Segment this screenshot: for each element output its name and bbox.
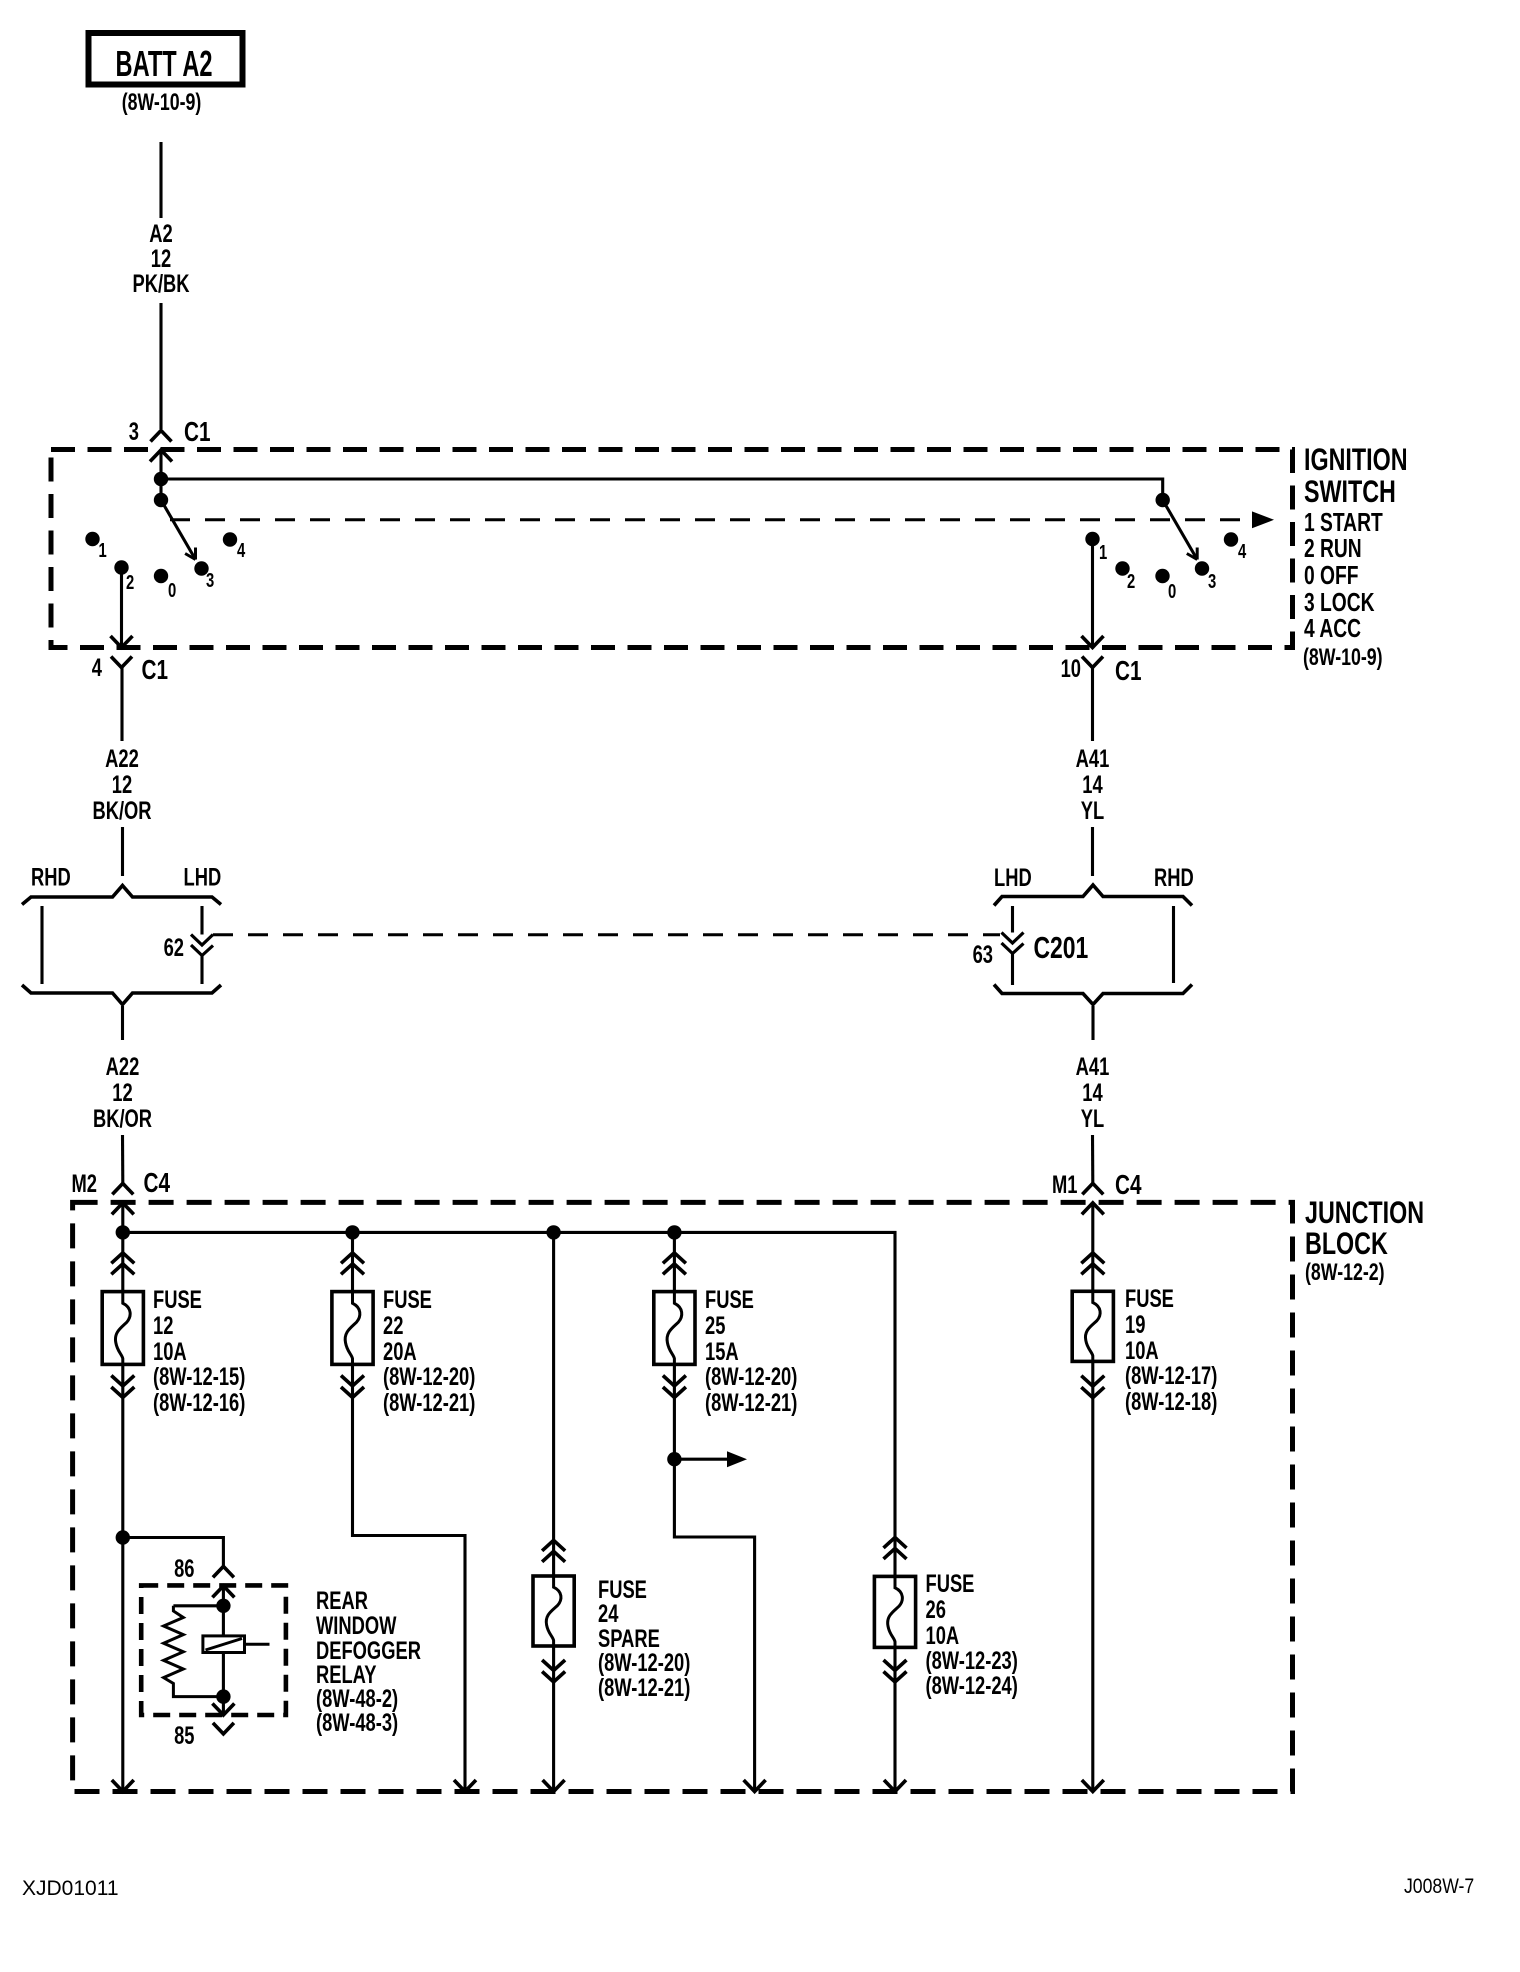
left switch contact 0 (154, 569, 168, 583)
fuse 19 upper chevrons (1081, 1253, 1104, 1264)
svg-text:86: 86 (174, 1554, 194, 1582)
fuse 24 upper chevrons (542, 1540, 565, 1551)
LHD branch wire upper (200, 906, 203, 935)
connector 62 chevrons (191, 935, 213, 946)
relay resistor link top (173, 1604, 223, 1607)
wire below left option split (121, 1006, 124, 1040)
connector C1 pin 10 fork below box (1082, 657, 1103, 668)
svg-text:3: 3 (206, 569, 214, 592)
fuse 12 upper chevrons (111, 1253, 134, 1264)
wire A41 from C1 pin10 (1091, 668, 1094, 742)
arrow fuse25 wire at block bottom (744, 1780, 766, 1792)
left switch contact 2 (114, 560, 128, 574)
bus node fuse 22 (345, 1225, 359, 1239)
arrow fuse22 wire at block bottom (454, 1780, 476, 1792)
relay internal node bottom (216, 1689, 230, 1703)
svg-text:C4: C4 (1115, 1170, 1142, 1201)
bus wire across junction block (123, 1232, 895, 1537)
bus node fuse 25 (667, 1225, 681, 1239)
svg-text:4: 4 (92, 653, 102, 681)
relay resistor (164, 1606, 224, 1697)
svg-text:(8W-12-24): (8W-12-24) (926, 1671, 1018, 1699)
svg-text:A41: A41 (1076, 744, 1110, 772)
bus node fuse 12 (116, 1225, 130, 1239)
fuse F12 (102, 1292, 143, 1365)
wire across ignition switch to right side (161, 479, 1163, 493)
wire below fuse 25 (674, 1364, 754, 1791)
svg-text:A41: A41 (1076, 1052, 1110, 1080)
left switch arm wiper (161, 500, 196, 560)
wire relay internal bottom (222, 1653, 225, 1715)
wire bus to fuse 24 (552, 1232, 555, 1576)
svg-text:14: 14 (1082, 1078, 1102, 1106)
wire below fuse 24 (552, 1646, 555, 1791)
wire bus to fuse 22 (351, 1232, 354, 1291)
svg-text:85: 85 (174, 1721, 194, 1749)
wire bus corner to fuse 26 (893, 1537, 896, 1576)
wire into left option split (121, 827, 124, 876)
svg-text:BK/OR: BK/OR (93, 1104, 152, 1132)
connector C1 pin 4 exit arrow (111, 636, 133, 648)
svg-text:PK/BK: PK/BK (132, 269, 189, 297)
svg-text:BK/OR: BK/OR (92, 796, 151, 824)
svg-text:2 RUN: 2 RUN (1304, 533, 1362, 563)
wire battery feed A2 (159, 142, 162, 218)
fuse 25 lower chevrons (663, 1376, 686, 1387)
svg-text:12: 12 (153, 1311, 173, 1339)
svg-text:FUSE: FUSE (705, 1285, 754, 1313)
svg-text:0 OFF: 0 OFF (1304, 560, 1359, 590)
svg-text:12: 12 (112, 770, 132, 798)
rear window defogger relay dashed box (141, 1585, 286, 1715)
svg-text:(8W-12-16): (8W-12-16) (153, 1388, 245, 1416)
arrow fuse12 wire at block bottom (112, 1780, 134, 1792)
connector C1 pin 10 exit arrow (1082, 636, 1104, 648)
svg-text:JUNCTION: JUNCTION (1305, 1195, 1424, 1230)
svg-text:63: 63 (973, 940, 993, 968)
fuse 12 lower chevrons (111, 1376, 134, 1387)
wire bus to fuse 25 (673, 1232, 676, 1291)
svg-text:C1: C1 (142, 655, 169, 686)
relay coil stub (245, 1643, 270, 1646)
wire relay internal top (222, 1586, 225, 1636)
relay terminal 85 arrow (212, 1704, 234, 1716)
wire C4 M2 to bus (121, 1203, 124, 1232)
connector C4 M2 fork (112, 1183, 133, 1194)
wire to relay terminal 86 (123, 1538, 224, 1567)
right switch arm wiper (1163, 500, 1198, 560)
right option split top brace (994, 885, 1192, 906)
svg-text:22: 22 (383, 1311, 403, 1339)
switch travel arrowhead (1252, 511, 1274, 528)
relay terminal 86 fork (213, 1566, 234, 1577)
svg-text:25: 25 (705, 1311, 725, 1339)
svg-text:1: 1 (1099, 541, 1107, 564)
svg-text:(8W-12-15): (8W-12-15) (153, 1362, 245, 1390)
svg-text:BATT A2: BATT A2 (116, 44, 213, 84)
relay terminal 86 arrow (212, 1586, 234, 1598)
left option split bottom brace (22, 985, 221, 1005)
svg-text:FUSE: FUSE (1125, 1284, 1174, 1312)
svg-text:62: 62 (164, 933, 184, 961)
wire to junction block C4 M1 (1091, 1135, 1094, 1183)
svg-text:19: 19 (1125, 1310, 1145, 1338)
svg-text:3: 3 (129, 417, 139, 445)
connector C1 pin 4 fork below box (111, 657, 132, 668)
svg-text:0: 0 (168, 579, 176, 602)
svg-text:4 ACC: 4 ACC (1304, 613, 1361, 643)
connector C4 M1 fork (1082, 1183, 1103, 1194)
svg-text:(8W-48-3): (8W-48-3) (316, 1708, 398, 1736)
wire to ignition switch C1 pin 3 (159, 303, 162, 429)
svg-text:LHD: LHD (994, 863, 1032, 891)
svg-text:C201: C201 (1034, 930, 1089, 965)
right switch contact 3 (1195, 561, 1209, 575)
svg-text:1: 1 (99, 539, 107, 562)
fuse F25 (654, 1292, 695, 1365)
svg-text:LHD: LHD (184, 863, 222, 891)
fuse F24 (533, 1576, 574, 1646)
arrow fuse24 wire at block bottom (543, 1780, 565, 1792)
wire below fuse 19 (1091, 1361, 1094, 1791)
connector 63 chevrons (1002, 933, 1024, 944)
bus node fuse 24 (546, 1225, 560, 1239)
arrow fuse26 wire at block bottom (884, 1780, 906, 1792)
left option split top brace (22, 886, 221, 905)
wire bus to fuse 12 (121, 1232, 124, 1291)
ignition switch dashed box (51, 450, 1293, 648)
fuse 26 lower chevrons (884, 1660, 907, 1671)
svg-text:FUSE: FUSE (153, 1285, 202, 1313)
connector C1 pin 3 fork (151, 431, 172, 442)
svg-text:C4: C4 (144, 1168, 171, 1199)
svg-text:4: 4 (1238, 540, 1246, 563)
svg-text:3: 3 (1208, 570, 1216, 593)
svg-text:(8W-12-17): (8W-12-17) (1125, 1361, 1217, 1389)
node left switch common (154, 493, 168, 507)
svg-text:C1: C1 (1115, 656, 1142, 687)
wire from C1 pin3 to node (159, 450, 162, 500)
LHD branch wire right upper (1011, 906, 1014, 933)
wire contact1 right to C1 pin 10 (1091, 539, 1094, 647)
wire into right option split (1091, 827, 1094, 876)
svg-text:YL: YL (1081, 796, 1104, 824)
arrow fuse19 wire at block bottom (1082, 1780, 1104, 1792)
svg-text:IGNITION: IGNITION (1304, 442, 1408, 477)
left switch contact 3 (194, 561, 208, 575)
svg-text:J008W-7: J008W-7 (1404, 1875, 1474, 1899)
wire A22 from C1 pin4 (120, 668, 123, 742)
svg-text:(8W-10-9): (8W-10-9) (1303, 645, 1383, 671)
connector C4 M2 arrow inside block (112, 1203, 134, 1215)
node right switch common (1156, 493, 1170, 507)
svg-text:SWITCH: SWITCH (1304, 474, 1396, 509)
RHD branch wire left (40, 906, 43, 984)
fuse 24 lower chevrons (542, 1660, 565, 1671)
svg-text:2: 2 (126, 571, 134, 594)
svg-text:M2: M2 (72, 1169, 97, 1197)
fuse F26 (874, 1576, 915, 1647)
svg-text:XJD01011: XJD01011 (22, 1877, 119, 1900)
switch travel dashed line (170, 518, 1252, 521)
svg-text:M1: M1 (1052, 1170, 1077, 1198)
svg-text:14: 14 (1082, 770, 1102, 798)
fuse 22 upper chevrons (341, 1253, 364, 1264)
wire below right option split (1091, 1006, 1094, 1040)
left switch contact 4 (223, 532, 237, 546)
node fuse 25 tap (667, 1452, 681, 1466)
right option split bottom brace (994, 985, 1192, 1005)
svg-text:A22: A22 (105, 744, 139, 772)
svg-text:(8W-10-9): (8W-10-9) (122, 90, 202, 116)
connector C1 pin 3 arrow inside box (150, 450, 172, 462)
svg-text:C1: C1 (184, 417, 211, 448)
relay terminal 85 fork (213, 1723, 234, 1734)
wire below fuse 26 (893, 1647, 896, 1791)
right switch contact 0 (1155, 569, 1169, 583)
fuse 25 tap arrow wire (674, 1458, 727, 1461)
fuse 26 upper chevrons (884, 1537, 907, 1548)
LHD branch wire lower (200, 956, 203, 985)
relay internal node top (216, 1599, 230, 1613)
svg-text:(8W-12-2): (8W-12-2) (1305, 1260, 1385, 1286)
right switch contact 1 (1085, 532, 1099, 546)
svg-text:2: 2 (1127, 570, 1135, 593)
svg-text:(8W-12-21): (8W-12-21) (383, 1388, 475, 1416)
svg-text:RHD: RHD (31, 863, 71, 891)
node relay branch (116, 1530, 130, 1544)
fuse 22 lower chevrons (341, 1376, 364, 1387)
dashed C201 link wire (213, 933, 1000, 936)
wire below fuse 12 (121, 1364, 124, 1791)
svg-text:FUSE: FUSE (926, 1569, 975, 1597)
wire below fuse 22 (353, 1364, 466, 1791)
left switch contact 1 (85, 532, 99, 546)
svg-text:26: 26 (926, 1595, 946, 1623)
svg-text:10: 10 (1061, 654, 1081, 682)
fuse F19 (1072, 1291, 1113, 1361)
fuse 25 upper chevrons (663, 1253, 686, 1264)
svg-text:12: 12 (112, 1078, 132, 1106)
fuse F22 (332, 1292, 373, 1365)
fuse 19 lower chevrons (1081, 1376, 1104, 1387)
node ignition feed junction (154, 472, 168, 486)
LHD branch wire right lower (1011, 954, 1014, 986)
svg-text:(8W-12-20): (8W-12-20) (383, 1362, 475, 1390)
svg-text:A22: A22 (106, 1052, 140, 1080)
connector C4 M1 arrow inside block (1082, 1203, 1104, 1215)
power feed box BATT A2 (89, 33, 243, 85)
svg-text:(8W-12-21): (8W-12-21) (705, 1388, 797, 1416)
svg-text:BLOCK: BLOCK (1305, 1226, 1388, 1261)
svg-text:(8W-12-18): (8W-12-18) (1125, 1387, 1217, 1415)
svg-text:RHD: RHD (1154, 863, 1194, 891)
svg-text:YL: YL (1081, 1104, 1104, 1132)
svg-text:0: 0 (1168, 580, 1176, 603)
junction block dashed box (73, 1202, 1293, 1791)
svg-text:4: 4 (237, 539, 245, 562)
svg-text:FUSE: FUSE (383, 1285, 432, 1313)
right switch contact 4 (1224, 532, 1238, 546)
svg-text:(8W-12-21): (8W-12-21) (598, 1673, 690, 1701)
right switch contact 2 (1115, 561, 1129, 575)
wire to junction block C4 M2 (121, 1135, 124, 1183)
relay coil (203, 1636, 245, 1653)
wire contact2 to C1 pin 4 (120, 568, 123, 648)
svg-text:(8W-12-20): (8W-12-20) (705, 1362, 797, 1390)
wire C4 M1 to fuse 19 (1091, 1203, 1094, 1291)
RHD branch wire right (1172, 906, 1175, 983)
